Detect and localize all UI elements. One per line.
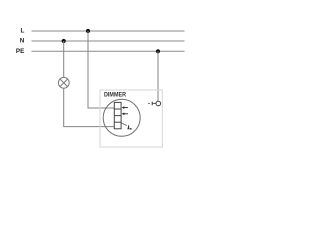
wire L to dimmer terminal 1	[88, 31, 114, 108]
wire N to lamp	[63, 41, 65, 78]
svg-text:PE: PE	[16, 48, 24, 55]
dimmer box	[100, 90, 162, 147]
terminal block	[114, 102, 121, 128]
terminal arrow 2	[122, 113, 128, 116]
svg-text:N: N	[20, 38, 25, 45]
dimmer body circle	[103, 99, 140, 136]
svg-text:DIMMER: DIMMER	[104, 92, 126, 99]
wire L bus	[32, 30, 185, 32]
terminal arrow 1	[122, 106, 128, 109]
node junction on PE	[156, 49, 160, 53]
lamp	[58, 77, 69, 88]
wire N bus	[32, 40, 185, 42]
svg-text:L: L	[20, 28, 24, 35]
node junction on N	[62, 39, 66, 43]
push button S	[148, 101, 160, 106]
adjustment arrow on terminal 4	[121, 123, 131, 130]
wire PE bus	[32, 50, 185, 52]
wire PE junction to push button	[157, 51, 159, 101]
wire lamp to dimmer terminal 4	[64, 88, 115, 126]
node junction on L	[86, 29, 90, 33]
